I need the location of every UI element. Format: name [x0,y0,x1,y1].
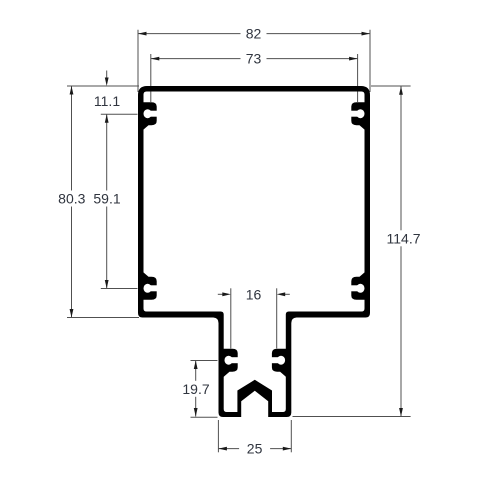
svg-text:25: 25 [247,441,263,457]
screw boss bottom-left [142,271,157,300]
dimension line 73 [151,58,358,60]
dimension line 114.7 [400,86,402,416]
extension line 16 left [230,288,232,348]
dimension arrow 11.1 upper [106,71,108,80]
dimension line 25 [218,448,291,450]
dimension line 80.3 [71,86,73,318]
extension line 19.7 top [191,360,218,362]
extension line 73 right [357,54,359,102]
screw boss channel-right [271,349,286,378]
svg-text:19.7: 19.7 [182,381,209,397]
label 73 [241,53,267,65]
dimension line 82 [138,33,370,35]
extension line 25 right [290,420,292,452]
extension line 59.1 bottom y288.5 [101,288,138,290]
label 25 [239,443,270,455]
extension line 82 right [369,30,371,92]
screw boss channel-left [223,349,238,378]
label 59.1 [91,191,124,207]
svg-text:73: 73 [246,51,262,67]
extension line bottom-right y416.5 [293,416,411,418]
label 82 [241,28,267,40]
svg-text:59.1: 59.1 [93,191,120,207]
extension line top-right y86 [371,85,411,87]
extension line 73 left [150,54,152,102]
extension line 19.7 bottom [191,416,218,418]
label 114.7 [383,230,424,246]
extension line top-left y86 [67,85,139,87]
screw boss top-right [351,102,366,131]
label 19.7 [180,381,213,397]
label 80.3 [55,191,88,207]
screw boss bottom-right [351,271,366,300]
svg-text:114.7: 114.7 [387,230,421,246]
svg-text:11.1: 11.1 [94,93,120,109]
dimension line 59.1 [106,114,108,288]
extension line 82 left [137,30,139,92]
screw boss top-left [142,102,157,131]
extension line 11.1 bottom y114.3 [101,113,138,115]
dimension line 19.7 [195,361,197,417]
extension line 25 left [217,420,219,452]
dimension arrows 16 [218,293,224,295]
profile body (extrusion cross-section) [138,86,370,417]
extension line 16 right [276,288,278,348]
svg-text:80.3: 80.3 [58,191,85,207]
svg-text:16: 16 [246,286,262,302]
extension line bottom-left y317.5 [67,317,139,319]
svg-text:82: 82 [246,26,262,42]
label 16 [241,288,267,300]
